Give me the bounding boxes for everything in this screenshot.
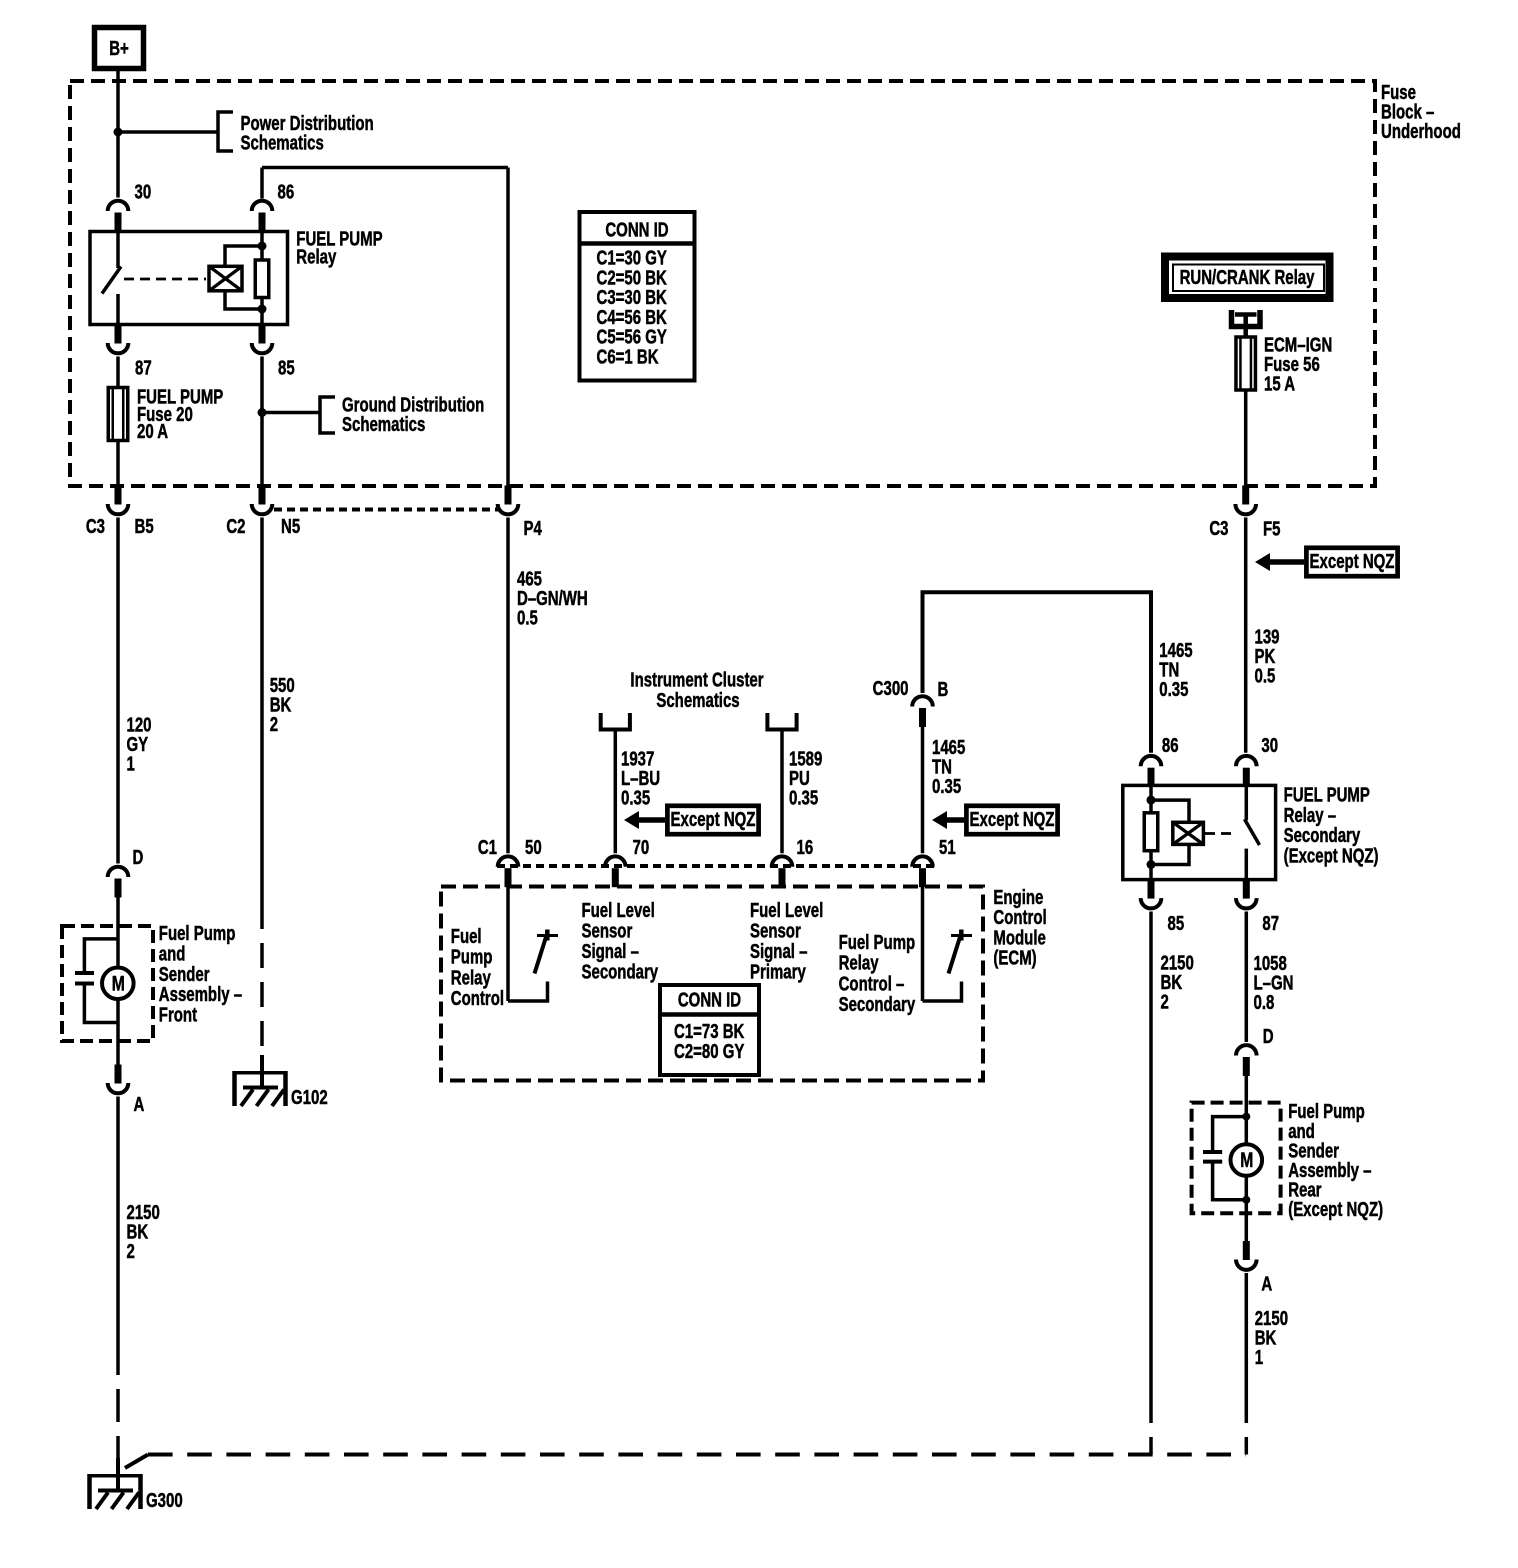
- svg-text:N5: N5: [281, 515, 300, 538]
- svg-text:Relay: Relay: [296, 245, 336, 268]
- svg-text:Instrument Cluster: Instrument Cluster: [630, 668, 763, 691]
- svg-text:(ECM): (ECM): [993, 946, 1036, 969]
- svg-text:87: 87: [1262, 912, 1279, 935]
- svg-text:Signal –: Signal –: [750, 940, 808, 963]
- svg-text:Sensor: Sensor: [582, 919, 633, 942]
- svg-text:Schematics: Schematics: [342, 413, 425, 436]
- svg-text:C1: C1: [478, 836, 497, 859]
- svg-text:Control: Control: [451, 987, 504, 1010]
- svg-text:A: A: [1261, 1272, 1272, 1295]
- svg-text:0.8: 0.8: [1254, 991, 1275, 1014]
- svg-text:C300: C300: [873, 677, 909, 700]
- svg-text:G102: G102: [291, 1086, 328, 1109]
- svg-text:D: D: [1263, 1025, 1274, 1048]
- svg-text:C2=80 GY: C2=80 GY: [674, 1040, 745, 1063]
- svg-text:RUN/CRANK Relay: RUN/CRANK Relay: [1180, 266, 1315, 289]
- svg-text:Pump: Pump: [451, 946, 493, 969]
- svg-text:0.5: 0.5: [517, 606, 538, 629]
- svg-text:Fuel Level: Fuel Level: [750, 899, 823, 922]
- svg-text:Secondary: Secondary: [839, 993, 916, 1016]
- svg-text:1: 1: [1255, 1346, 1263, 1369]
- svg-text:15 A: 15 A: [1264, 372, 1295, 395]
- svg-text:M: M: [1240, 1148, 1253, 1172]
- svg-text:Relay: Relay: [451, 966, 491, 989]
- svg-text:Front: Front: [159, 1003, 197, 1026]
- svg-text:A: A: [134, 1093, 145, 1116]
- svg-text:20 A: 20 A: [137, 420, 168, 443]
- svg-text:2: 2: [1161, 990, 1169, 1013]
- svg-text:G300: G300: [146, 1489, 183, 1512]
- svg-text:(Except NQZ): (Except NQZ): [1284, 844, 1379, 867]
- svg-text:Underhood: Underhood: [1381, 120, 1461, 143]
- svg-text:C6=1 BK: C6=1 BK: [597, 345, 659, 368]
- svg-text:0.35: 0.35: [932, 775, 961, 798]
- svg-text:Relay: Relay: [839, 952, 879, 975]
- svg-text:P4: P4: [524, 517, 542, 540]
- svg-text:Control –: Control –: [839, 972, 905, 995]
- svg-text:Sender: Sender: [159, 963, 210, 986]
- svg-text:D: D: [133, 846, 144, 869]
- svg-text:(Except NQZ): (Except NQZ): [1288, 1198, 1383, 1221]
- svg-text:C2: C2: [226, 515, 245, 538]
- svg-text:85: 85: [278, 356, 295, 379]
- svg-text:Fuel Level: Fuel Level: [582, 899, 655, 922]
- svg-text:Fuel Pump: Fuel Pump: [839, 931, 916, 954]
- svg-text:Relay –: Relay –: [1284, 804, 1337, 827]
- svg-text:Sensor: Sensor: [750, 919, 801, 942]
- svg-text:30: 30: [135, 180, 152, 203]
- svg-text:0.5: 0.5: [1255, 664, 1276, 687]
- svg-text:0.35: 0.35: [1159, 678, 1188, 701]
- svg-text:Schematics: Schematics: [656, 689, 739, 712]
- svg-text:86: 86: [1162, 734, 1179, 757]
- svg-text:30: 30: [1261, 734, 1278, 757]
- svg-text:B5: B5: [135, 515, 154, 538]
- svg-text:70: 70: [633, 836, 650, 859]
- svg-text:C3: C3: [1209, 517, 1228, 540]
- svg-text:Signal –: Signal –: [582, 940, 640, 963]
- svg-text:2: 2: [127, 1240, 135, 1263]
- svg-text:B+: B+: [109, 37, 129, 60]
- svg-text:Fuel: Fuel: [451, 925, 482, 948]
- svg-text:16: 16: [797, 836, 814, 859]
- svg-text:Secondary: Secondary: [582, 960, 659, 983]
- svg-text:Schematics: Schematics: [241, 131, 324, 154]
- svg-text:CONN ID: CONN ID: [605, 218, 668, 241]
- svg-text:87: 87: [135, 356, 152, 379]
- svg-text:Secondary: Secondary: [1284, 824, 1361, 847]
- svg-text:50: 50: [525, 836, 542, 859]
- svg-text:1: 1: [127, 752, 135, 775]
- svg-text:Assembly –: Assembly –: [159, 983, 242, 1006]
- svg-text:CONN ID: CONN ID: [678, 989, 741, 1012]
- svg-text:0.35: 0.35: [789, 786, 818, 809]
- svg-text:Primary: Primary: [750, 960, 806, 983]
- svg-text:Except NQZ: Except NQZ: [671, 808, 756, 831]
- svg-text:51: 51: [939, 836, 956, 859]
- svg-text:FUEL PUMP: FUEL PUMP: [1284, 783, 1370, 806]
- svg-text:Except NQZ: Except NQZ: [1310, 550, 1395, 573]
- svg-text:85: 85: [1168, 912, 1185, 935]
- svg-text:M: M: [112, 971, 125, 995]
- svg-text:Fuel Pump: Fuel Pump: [159, 922, 236, 945]
- svg-text:2: 2: [270, 713, 278, 736]
- svg-text:C3: C3: [86, 515, 105, 538]
- svg-text:B: B: [938, 678, 949, 701]
- svg-text:86: 86: [278, 180, 295, 203]
- svg-text:F5: F5: [1263, 517, 1281, 540]
- svg-text:Except NQZ: Except NQZ: [970, 808, 1055, 831]
- svg-text:0.35: 0.35: [621, 786, 650, 809]
- svg-text:and: and: [159, 942, 186, 965]
